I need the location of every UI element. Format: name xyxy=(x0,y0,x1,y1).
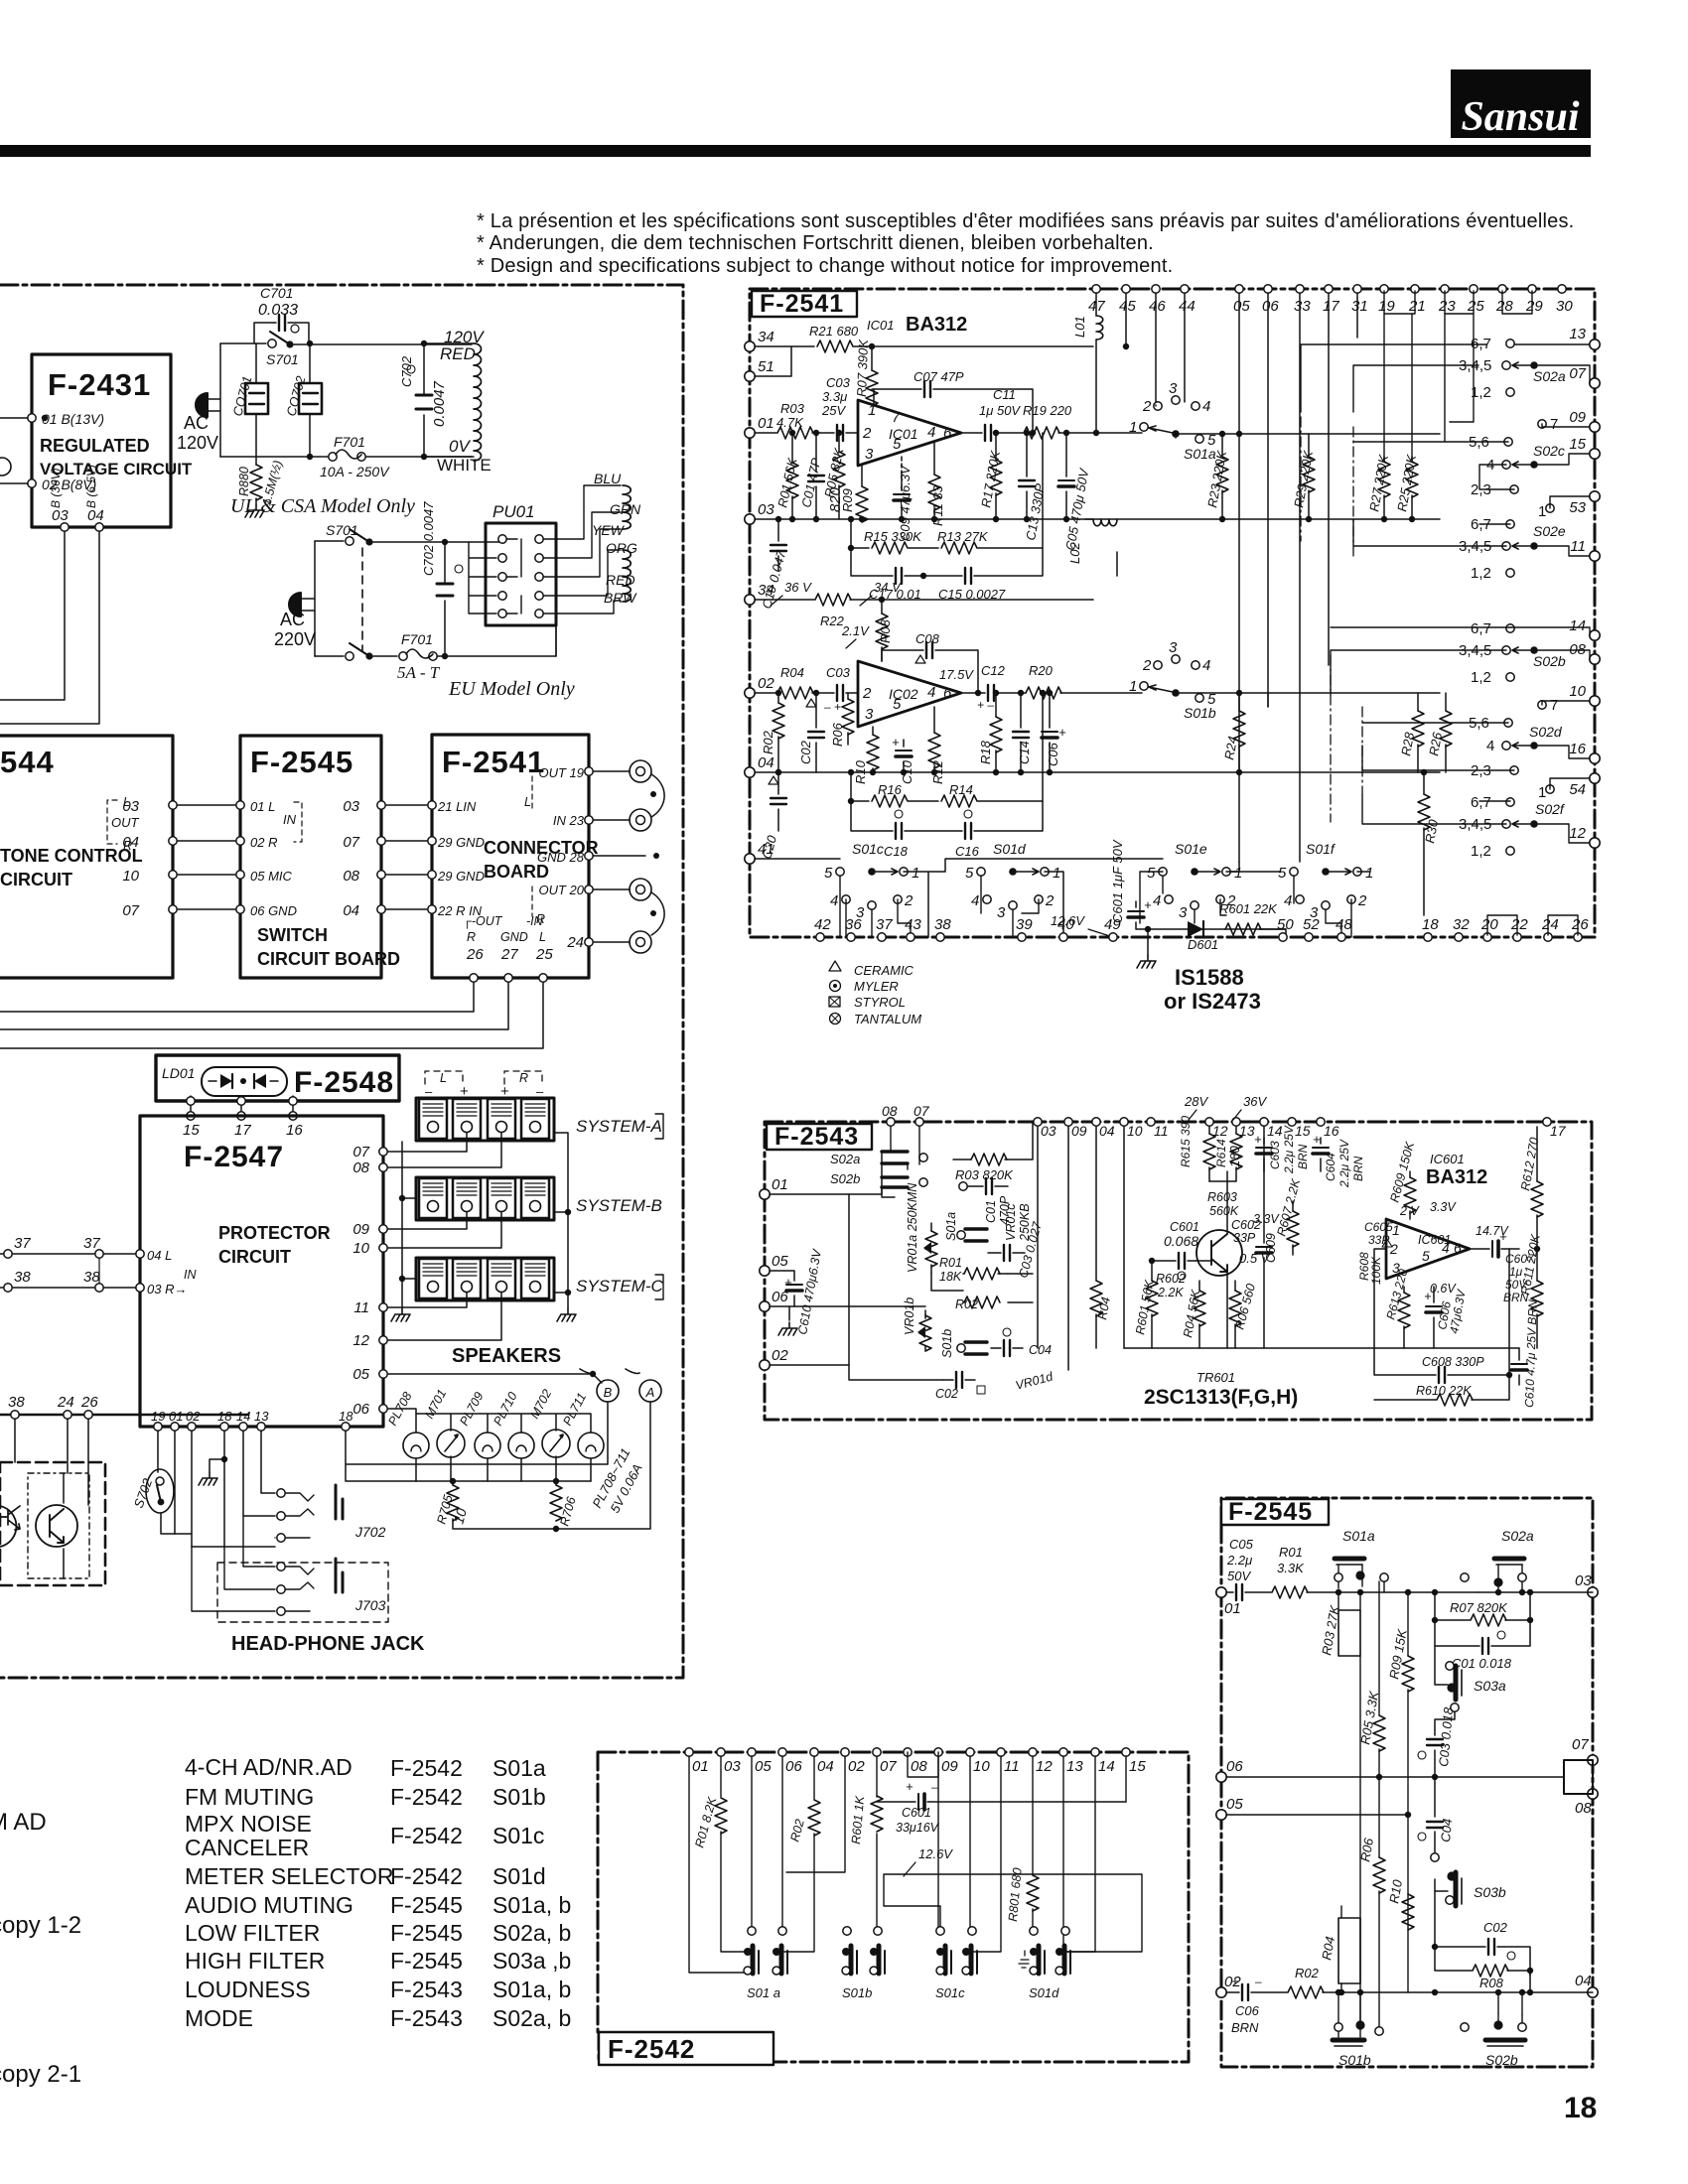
svg-text:05: 05 xyxy=(772,1253,788,1270)
capacitor C03 0.027 xyxy=(988,1219,1045,1279)
svg-text:45: 45 xyxy=(1119,298,1136,315)
F-2542 title xyxy=(599,2032,774,2065)
svg-text:17.5V: 17.5V xyxy=(939,667,974,682)
resistor R23 220K xyxy=(1204,431,1229,522)
svg-text:VR01c: VR01c xyxy=(1004,1203,1018,1241)
interconnect wires F-2545 to F-2541 xyxy=(386,805,427,909)
F-2543 title xyxy=(767,1123,872,1151)
potentiometer VR01c 250KB xyxy=(1004,1203,1032,1242)
switch S01b (F-2545b) xyxy=(1333,1989,1371,2068)
switch S02a (F-2545b) xyxy=(1461,1528,1534,1595)
svg-text:S01b: S01b xyxy=(1184,705,1216,721)
F-2541 main board dash-dot border xyxy=(750,289,1595,937)
svg-text:BRN: BRN xyxy=(1231,2020,1259,2035)
resistor R706 xyxy=(550,1485,579,1528)
legend styrol xyxy=(829,995,906,1010)
svg-text:25: 25 xyxy=(535,946,553,963)
F-2542 vertical wires xyxy=(689,1756,1142,1973)
headphone jack J702 xyxy=(175,1431,386,1547)
IC601 op-amp xyxy=(1386,1152,1509,1296)
switch S02a (input) xyxy=(830,1127,927,1169)
svg-text:S01b: S01b xyxy=(1338,2052,1371,2068)
svg-text:6: 6 xyxy=(943,425,952,442)
end vertical open circle xyxy=(1375,2027,1383,2035)
svg-text:09: 09 xyxy=(352,1221,369,1238)
svg-text:46: 46 xyxy=(1149,298,1166,315)
svg-text:R06: R06 xyxy=(830,722,845,747)
resistor R27 220K xyxy=(1366,453,1391,523)
svg-text:BRN: BRN xyxy=(1296,1144,1310,1169)
resistor R07 390K (vertical) xyxy=(854,338,878,408)
svg-text:S03b: S03b xyxy=(1474,1884,1506,1900)
switch S01a (F-2542) xyxy=(744,1927,787,2000)
gang link dashed xyxy=(361,548,363,650)
feedback R07 820K xyxy=(1432,1589,1533,1626)
fuse F701 10A-250V xyxy=(220,434,472,479)
svg-text:R08: R08 xyxy=(1479,1976,1504,1990)
svg-text:03: 03 xyxy=(52,507,69,524)
svg-text:4: 4 xyxy=(927,424,935,441)
svg-text:50V: 50V xyxy=(1227,1569,1251,1583)
resistor R04 xyxy=(1090,1127,1113,1348)
resistor R601 1K xyxy=(849,1795,883,1844)
svg-text:+: + xyxy=(892,735,900,750)
svg-text:C601 1μF 50V: C601 1μF 50V xyxy=(1110,839,1125,923)
svg-text:F701: F701 xyxy=(401,631,433,647)
svg-text:C03: C03 xyxy=(826,375,851,390)
switch S02b (F-2545b) xyxy=(1461,1989,1526,2068)
svg-text:+ –: + – xyxy=(977,698,994,712)
resistor R25 220K xyxy=(1384,314,1474,522)
pilot lamp PL708 xyxy=(403,1433,429,1458)
Sansui logo box xyxy=(1451,69,1591,140)
wire 51 step xyxy=(755,346,791,376)
svg-text:38: 38 xyxy=(8,1394,25,1411)
svg-text:34: 34 xyxy=(758,329,774,345)
capacitor C05 470u50V xyxy=(1058,430,1092,552)
svg-text:21 LIN: 21 LIN xyxy=(437,799,477,814)
svg-text:PROTECTOR: PROTECTOR xyxy=(218,1223,331,1243)
svg-text:R602: R602 xyxy=(1156,1272,1186,1286)
switch S02a xyxy=(1301,336,1590,412)
svg-text:54: 54 xyxy=(1569,781,1586,798)
svg-text:R07 390K: R07 390K xyxy=(854,338,871,397)
resistor R02 xyxy=(787,1800,820,1843)
svg-text:10: 10 xyxy=(1127,1123,1143,1139)
wire pin04 down-left xyxy=(0,531,99,724)
capacitor C20 xyxy=(759,769,786,861)
svg-text:02 R: 02 R xyxy=(250,835,277,850)
svg-text:* La présention et les spécifi: * La présention et les spécifications so… xyxy=(477,210,1574,232)
svg-text:21: 21 xyxy=(1408,298,1426,315)
svg-text:F-2545: F-2545 xyxy=(250,745,353,779)
resistor R09 15K xyxy=(1386,1589,1414,1992)
svg-text:L: L xyxy=(440,1071,447,1085)
svg-text:S02c: S02c xyxy=(1533,443,1565,459)
svg-text:07: 07 xyxy=(880,1758,897,1775)
svg-text:02: 02 xyxy=(758,675,774,692)
dashed L OUT R bracket (544) xyxy=(107,800,117,844)
svg-text:01: 01 xyxy=(1224,1600,1241,1617)
switch S701 lower pole xyxy=(315,643,397,660)
svg-text:38: 38 xyxy=(83,1269,100,1286)
svg-text:24: 24 xyxy=(1541,916,1559,933)
svg-text:C601: C601 xyxy=(1170,1220,1199,1234)
group link dash rails xyxy=(1301,417,1362,822)
svg-text:05: 05 xyxy=(1233,298,1250,315)
svg-text:REGULATED: REGULATED xyxy=(40,436,150,456)
rail 34 (second) xyxy=(755,599,1093,601)
36V 34V marks xyxy=(771,580,902,606)
svg-text:2.2μ 25V: 2.2μ 25V xyxy=(1337,1139,1351,1188)
svg-text:50: 50 xyxy=(1277,916,1294,933)
svg-text:C07 47P: C07 47P xyxy=(914,369,964,384)
svg-text:38: 38 xyxy=(934,916,951,933)
svg-text:0.0047: 0.0047 xyxy=(431,380,448,427)
svg-text:R880: R880 xyxy=(237,467,251,496)
feedback C01 0.018 xyxy=(1435,1620,1530,1671)
resistor R21 680 xyxy=(809,324,859,352)
resistor R609 150K xyxy=(1387,1140,1417,1219)
svg-text:06: 06 xyxy=(1262,298,1279,315)
svg-text:┌-OUT: ┌-OUT xyxy=(463,914,503,930)
svg-text:S02a: S02a xyxy=(1533,368,1566,384)
svg-text:F-2542: F-2542 xyxy=(390,1784,463,1810)
legend ceramic xyxy=(829,961,914,978)
svg-text:S02f: S02f xyxy=(1535,801,1566,817)
resistor R01 8.2K xyxy=(692,1795,727,1849)
svg-text:R: R xyxy=(467,930,476,944)
switch S01e xyxy=(1140,841,1242,923)
capacitor C701 0.033 xyxy=(254,285,309,343)
switch S01d xyxy=(965,841,1063,937)
svg-text:3: 3 xyxy=(865,446,874,463)
svg-text:R614: R614 xyxy=(1214,1139,1228,1167)
svg-text:44: 44 xyxy=(1179,298,1196,315)
svg-text:L02: L02 xyxy=(1067,542,1082,564)
svg-text:14: 14 xyxy=(1098,1758,1115,1775)
rail 06 xyxy=(1226,1760,1564,1777)
headphone jack J703 xyxy=(192,1516,388,1622)
svg-text:3.3V: 3.3V xyxy=(1430,1200,1457,1214)
svg-text:R02: R02 xyxy=(1295,1966,1320,1980)
svg-text:08: 08 xyxy=(352,1160,369,1176)
input wires 37 / 38 from page edge xyxy=(0,1235,136,1292)
svg-text:R03: R03 xyxy=(780,401,805,416)
secondary coil BLU/GRN/YEW xyxy=(623,485,631,529)
svg-text:F-2545: F-2545 xyxy=(390,1920,463,1946)
resistor R01 56K xyxy=(774,430,799,522)
svg-text:L01: L01 xyxy=(1072,316,1087,338)
svg-text:26: 26 xyxy=(1571,916,1589,933)
svg-text:IC601: IC601 xyxy=(1430,1152,1465,1166)
ground (R880) xyxy=(245,504,264,517)
resistor R03 4.7K xyxy=(776,401,813,439)
resistor R18 xyxy=(978,690,1002,775)
svg-text:MODE: MODE xyxy=(185,2005,253,2031)
svg-text:544: 544 xyxy=(0,745,55,779)
svg-text:HIGH FILTER: HIGH FILTER xyxy=(185,1948,325,1974)
svg-text:J703: J703 xyxy=(354,1597,386,1613)
output line with C11 R19 xyxy=(961,387,1142,441)
svg-text:15: 15 xyxy=(1569,436,1586,453)
svg-text:VR01b: VR01b xyxy=(903,1297,916,1335)
svg-text:C601: C601 xyxy=(902,1806,931,1820)
svg-text:01 B(13V): 01 B(13V) xyxy=(42,411,104,427)
svg-text:R04: R04 xyxy=(780,665,804,680)
svg-text:28: 28 xyxy=(1495,298,1513,315)
svg-text:S701: S701 xyxy=(326,522,358,538)
svg-text:BA312: BA312 xyxy=(1426,1166,1487,1188)
output cap C607 xyxy=(1470,1229,1535,1304)
svg-text:27: 27 xyxy=(500,946,518,963)
svg-text:220V: 220V xyxy=(274,629,316,649)
svg-text:04: 04 xyxy=(87,507,104,524)
svg-text:07: 07 xyxy=(352,1144,369,1160)
resistor R603 560K xyxy=(1207,1190,1280,1245)
svg-text:52: 52 xyxy=(1303,916,1320,933)
svg-text:11: 11 xyxy=(353,1299,369,1316)
left dash-dot enclosure border xyxy=(0,285,683,1678)
svg-text:S01d: S01d xyxy=(1029,1985,1059,2000)
svg-text:S03a ,b: S03a ,b xyxy=(492,1948,571,1974)
svg-text:3.3K: 3.3K xyxy=(1277,1561,1305,1575)
capacitor C702 0.0047 (120V) xyxy=(399,341,448,460)
capacitor C06 xyxy=(1042,690,1066,775)
svg-text:MPX NOISE: MPX NOISE xyxy=(185,1811,312,1837)
op-amp IC01 xyxy=(858,389,961,466)
svg-text:7: 7 xyxy=(892,409,901,426)
svg-text:36: 36 xyxy=(845,916,862,933)
input line 01 xyxy=(755,432,858,434)
svg-text:C605: C605 xyxy=(1364,1220,1393,1234)
svg-text:* Design and specifications su: * Design and specifications subject to c… xyxy=(477,255,1173,277)
svg-text:R02: R02 xyxy=(955,1297,978,1311)
svg-text:33P: 33P xyxy=(1233,1231,1256,1245)
F-2543 top pins xyxy=(882,1103,1567,1139)
resistor R03 27K (rectangle style) xyxy=(1319,1592,1360,2027)
resistor R611 220K xyxy=(1518,1233,1543,1348)
capacitor C14 xyxy=(1013,690,1032,775)
svg-text:11: 11 xyxy=(1004,1758,1020,1775)
svg-text:R601 22K: R601 22K xyxy=(1219,901,1278,916)
svg-text:08: 08 xyxy=(343,868,359,885)
capacitor C610 470u6.3V xyxy=(770,1247,824,1336)
capacitor C03 (ch2) xyxy=(823,665,851,714)
resistor R602 2.2K xyxy=(1156,1272,1186,1299)
svg-text:30: 30 xyxy=(1556,298,1573,315)
svg-text:R07 820K: R07 820K xyxy=(1450,1600,1508,1615)
svg-text:GND 28: GND 28 xyxy=(537,850,585,865)
ground (C601) xyxy=(1137,926,1156,968)
svg-text:S01a: S01a xyxy=(492,1755,546,1781)
svg-text:17: 17 xyxy=(1323,298,1339,315)
svg-text:OUT 19: OUT 19 xyxy=(538,765,584,780)
svg-text:C608 330P: C608 330P xyxy=(1422,1355,1484,1369)
mid rail xyxy=(1124,1347,1519,1349)
switch S02d xyxy=(1362,697,1590,801)
svg-text:+: + xyxy=(1313,1132,1321,1147)
svg-text:+: + xyxy=(784,1275,792,1290)
svg-text:F-2543: F-2543 xyxy=(774,1123,859,1151)
svg-text:IN 23: IN 23 xyxy=(553,813,585,828)
svg-text:05: 05 xyxy=(755,1758,772,1775)
svg-text:120V: 120V xyxy=(177,433,218,453)
resistor R12 xyxy=(928,707,945,784)
svg-text:F701: F701 xyxy=(334,434,365,450)
svg-text:F-2541: F-2541 xyxy=(760,290,844,318)
svg-text:2.2K: 2.2K xyxy=(1157,1286,1184,1299)
svg-text:BRW: BRW xyxy=(604,590,637,606)
switch S03b xyxy=(1435,1871,1506,1947)
svg-text:03: 03 xyxy=(1041,1123,1056,1139)
capacitor C07 47P feedback xyxy=(872,369,1036,436)
svg-text:05: 05 xyxy=(1226,1796,1243,1813)
svg-text:IN: IN xyxy=(283,812,297,827)
svg-text:F-2545: F-2545 xyxy=(390,1892,463,1918)
resistor R10 xyxy=(853,727,879,784)
svg-text:S01a: S01a xyxy=(1342,1528,1375,1544)
svg-text:C11: C11 xyxy=(993,387,1016,402)
F-2541 left pins xyxy=(745,329,775,864)
svg-text:CANCELER: CANCELER xyxy=(185,1835,309,1860)
svg-text:09: 09 xyxy=(1071,1123,1087,1139)
svg-text:R16: R16 xyxy=(878,782,903,797)
secondary coil ORG/RED/BRW xyxy=(623,550,631,602)
F-2543 left pins xyxy=(760,1176,789,1370)
switch S01c xyxy=(755,841,1281,937)
svg-text:18: 18 xyxy=(217,1409,232,1424)
svg-text:11: 11 xyxy=(1570,538,1586,555)
switch S02c xyxy=(1353,416,1590,520)
svg-text:C702 0.0047: C702 0.0047 xyxy=(421,501,436,576)
svg-text:15: 15 xyxy=(1129,1758,1146,1775)
switch S01a (loudness) xyxy=(944,1212,987,1241)
switch S01c (F-2542) xyxy=(935,1927,977,2000)
resistor R22 xyxy=(815,594,851,628)
svg-text:RED: RED xyxy=(440,344,476,363)
svg-text:F-2542: F-2542 xyxy=(608,2034,695,2064)
svg-text:AC: AC xyxy=(184,413,209,433)
svg-text:16: 16 xyxy=(1569,741,1586,757)
svg-text:TONE CONTROL: TONE CONTROL xyxy=(0,846,143,866)
svg-text:–: – xyxy=(1254,1975,1262,1988)
svg-text:CIRCUIT: CIRCUIT xyxy=(0,870,72,889)
svg-text:EU Model Only: EU Model Only xyxy=(448,678,575,700)
F-2541 right pins xyxy=(1569,326,1600,848)
svg-text:08: 08 xyxy=(1575,1800,1592,1817)
svg-text:GND: GND xyxy=(500,930,528,944)
svg-text:B (6.5V): B (6.5V) xyxy=(84,465,98,508)
feedback C608 330P R610 22K xyxy=(1374,1249,1512,1406)
resistor R29 220K xyxy=(1291,434,1316,522)
capacitor C03 3.3u 25V xyxy=(821,375,851,441)
svg-text:23: 23 xyxy=(1438,298,1456,315)
svg-text:D601: D601 xyxy=(1188,937,1218,952)
F-2541 title xyxy=(752,290,857,318)
wires from F-2431 left pins to page edge xyxy=(0,415,48,483)
svg-text:560K: 560K xyxy=(1209,1204,1239,1218)
rail 03 xyxy=(755,518,1440,520)
F-2548 block with LED xyxy=(156,1055,399,1101)
svg-text:S01b: S01b xyxy=(940,1329,954,1358)
svg-text:C609: C609 xyxy=(1264,1233,1278,1263)
svg-text:C02: C02 xyxy=(798,740,813,764)
svg-text:18: 18 xyxy=(1564,2092,1597,2124)
svg-text:2: 2 xyxy=(862,685,872,702)
svg-text:RED: RED xyxy=(606,572,635,588)
svg-text:+: + xyxy=(1058,725,1066,740)
svg-text:6: 6 xyxy=(943,685,952,702)
interconnect wires 544 to F-2545 xyxy=(178,805,235,909)
svg-text:1: 1 xyxy=(1392,1222,1400,1238)
svg-text:100K: 100K xyxy=(1369,1256,1383,1285)
resistor R08 vertical xyxy=(876,597,893,661)
resistor R17 220K xyxy=(978,430,1003,522)
svg-text:R20: R20 xyxy=(1029,663,1054,678)
svg-text:C603: C603 xyxy=(1268,1141,1282,1169)
capacitor C19 0.047 xyxy=(759,516,788,611)
svg-text:L: L xyxy=(539,930,546,944)
capacitor C04 xyxy=(1418,1777,1455,1861)
svg-text:VR01a 250KMN: VR01a 250KMN xyxy=(906,1182,919,1273)
svg-text:S02a, b: S02a, b xyxy=(492,1920,571,1946)
svg-text:LOUDNESS: LOUDNESS xyxy=(185,1977,311,2002)
switch S701 (primary) xyxy=(220,332,472,367)
svg-text:S01c: S01c xyxy=(935,1985,965,2000)
svg-text:–: – xyxy=(930,1780,938,1794)
svg-text:S01a: S01a xyxy=(1184,446,1216,462)
svg-text:16: 16 xyxy=(1324,1123,1339,1139)
svg-text:04: 04 xyxy=(343,902,359,919)
svg-text:09: 09 xyxy=(941,1758,958,1775)
svg-text:S02b: S02b xyxy=(1533,653,1566,669)
svg-text:copy 2-1: copy 2-1 xyxy=(0,2061,81,2088)
svg-text:28V: 28V xyxy=(1184,1094,1208,1109)
svg-text:WHITE: WHITE xyxy=(437,456,492,475)
capacitor C03 0.018 xyxy=(1418,1704,1459,1780)
svg-text:48: 48 xyxy=(1336,916,1352,933)
feedback C02 xyxy=(1432,1920,1530,1976)
svg-text:25V: 25V xyxy=(821,403,846,418)
feedback loop R15 R13 xyxy=(848,433,1043,554)
F-2543 left wiring xyxy=(770,1127,1124,1380)
switch S01a (F-2545b) xyxy=(1335,1528,1388,1595)
svg-text:S01d: S01d xyxy=(993,841,1027,857)
svg-text:GRN: GRN xyxy=(610,501,641,517)
switch S01b (F-2542) xyxy=(842,1927,885,2000)
svg-text:2: 2 xyxy=(862,425,872,442)
rail 02 with C06 R02 xyxy=(1226,1966,1593,2035)
inductor L01 xyxy=(1072,293,1103,436)
svg-text:S02a: S02a xyxy=(830,1152,860,1166)
output line C12 R20 xyxy=(961,663,1142,712)
feedback R08 xyxy=(1432,1947,1533,1995)
svg-text:40: 40 xyxy=(1057,916,1074,933)
ground right speaker bus xyxy=(557,1308,576,1321)
svg-text:07: 07 xyxy=(1569,365,1586,382)
resistor R607 2.2K xyxy=(1274,1176,1303,1255)
svg-text:SYSTEM-A: SYSTEM-A xyxy=(576,1117,662,1136)
svg-text:C04: C04 xyxy=(1029,1343,1052,1357)
svg-text:06: 06 xyxy=(785,1758,802,1775)
svg-text:S01c: S01c xyxy=(852,841,884,857)
svg-text:36V: 36V xyxy=(1243,1094,1267,1109)
svg-text:HEAD-PHONE JACK: HEAD-PHONE JACK xyxy=(231,1633,425,1655)
svg-text:CIRCUIT BOARD: CIRCUIT BOARD xyxy=(257,949,400,969)
switch S02b xyxy=(1331,620,1590,695)
F-2542 top pin row xyxy=(685,1748,1147,1777)
